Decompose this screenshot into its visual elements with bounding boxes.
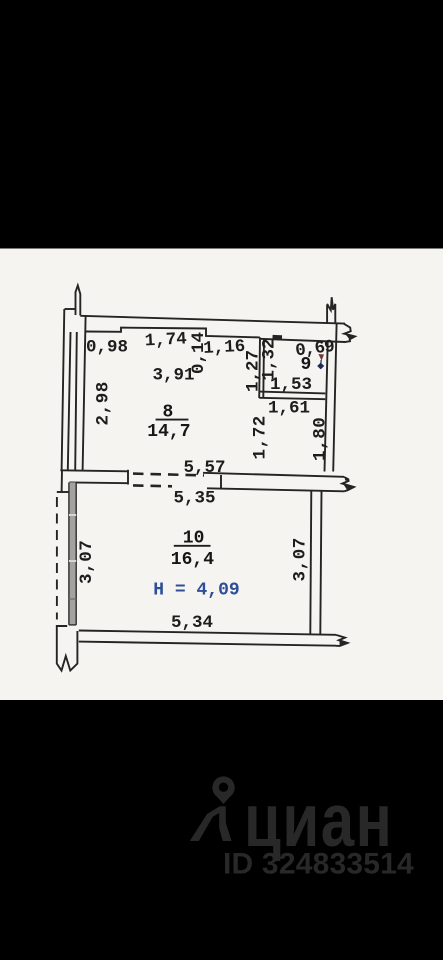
blue diamond mark — [317, 363, 324, 370]
svg-text:14,7: 14,7 — [147, 422, 190, 442]
room 10 right wall outer — [320, 491, 321, 635]
svg-text:ID 324833514: ID 324833514 — [223, 848, 414, 881]
mid wall dashed opening lower — [133, 484, 172, 487]
bottom wall inner line — [79, 642, 336, 646]
red mark — [318, 354, 324, 361]
mid wall right break arrow — [342, 477, 354, 492]
top wall inner line over closet — [260, 339, 345, 342]
svg-text:3,07: 3,07 — [291, 537, 311, 581]
arrow tip fills — [345, 334, 355, 340]
svg-text:16,4: 16,4 — [171, 550, 214, 570]
left wall line 1 outer — [62, 309, 65, 470]
svg-text:3,07: 3,07 — [77, 540, 97, 584]
closet 9 left wall outer — [258, 337, 261, 398]
right wall of room 8 inner — [325, 342, 328, 472]
mid wall left segment top line — [60, 470, 128, 471]
scanned paper background — [0, 249, 443, 701]
mid wall right segment top line — [203, 473, 344, 477]
closet 9 left wall inner — [262, 339, 265, 398]
bottom black bar — [0, 700, 443, 960]
cian logo person symbol — [190, 806, 232, 841]
svg-text:5,34: 5,34 — [171, 613, 213, 633]
room 10 left dashed boundary — [56, 497, 58, 620]
svg-text:1,53: 1,53 — [270, 375, 312, 395]
mid wall left segment bottom line — [69, 481, 128, 484]
wall top-left step — [65, 308, 76, 310]
svg-text:1,80: 1,80 — [311, 417, 331, 461]
lintel mark — [273, 335, 283, 340]
svg-text:H = 4,09: H = 4,09 — [153, 581, 239, 601]
svg-text:5,57: 5,57 — [184, 458, 226, 478]
room 8 fraction line — [156, 419, 189, 421]
room 10 fraction line — [174, 545, 211, 547]
room 10 left jamb vertical — [61, 470, 63, 492]
top black bar — [0, 0, 443, 249]
top wall inner line with steps — [86, 328, 260, 338]
closet 9 bottom wall upper line — [259, 392, 325, 394]
top wall outer line — [80, 316, 345, 324]
svg-text:1,27: 1,27 — [244, 350, 264, 392]
top wall right break arrow — [344, 324, 355, 342]
mid wall left end cap — [127, 470, 129, 485]
svg-text:1,61: 1,61 — [268, 399, 310, 419]
mid wall right segment bottom line — [207, 488, 344, 491]
bottom wall outer line — [79, 631, 336, 635]
mid wall dashed opening upper — [133, 474, 204, 476]
svg-text:0,98: 0,98 — [86, 338, 128, 358]
left wall line 4 inner — [83, 316, 86, 471]
wall spike top-left — [76, 286, 81, 316]
room 10 right wall inner — [310, 491, 311, 634]
svg-text:9: 9 — [301, 355, 312, 375]
right wall of room 8 outer — [333, 324, 336, 472]
svg-text:2,98: 2,98 — [94, 381, 114, 425]
svg-text:3,91: 3,91 — [153, 366, 195, 386]
svg-text:1,72: 1,72 — [251, 415, 271, 459]
left wall line 3 — [75, 332, 77, 471]
window strip gray (left wall of room 10) — [69, 482, 76, 625]
left wall line 2 — [68, 332, 71, 470]
mid wall tick — [220, 475, 222, 489]
cian logo pin — [212, 776, 234, 798]
svg-text:1,16: 1,16 — [203, 337, 246, 359]
bottom wall right break arrow — [336, 635, 348, 646]
bottom-left pillar with break — [57, 626, 78, 671]
right wall break symbol above top wall — [326, 304, 329, 324]
closet 9 bottom wall lower line — [259, 398, 325, 399]
svg-text:5,35: 5,35 — [174, 488, 216, 508]
svg-text:1,74: 1,74 — [144, 329, 187, 351]
room 10 left jamb tick — [57, 491, 69, 493]
